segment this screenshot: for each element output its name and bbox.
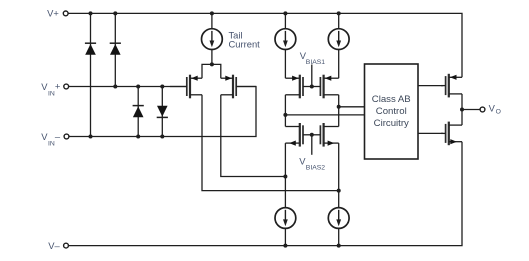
svg-text:V: V	[489, 102, 496, 113]
svg-text:Current: Current	[229, 39, 261, 50]
svg-text:+: +	[55, 80, 61, 91]
svg-text:Control: Control	[376, 106, 407, 117]
svg-text:V–: V–	[48, 240, 60, 251]
svg-text:–: –	[55, 130, 61, 141]
svg-text:BIAS2: BIAS2	[306, 165, 325, 172]
svg-text:Class AB: Class AB	[372, 94, 411, 105]
svg-text:BIAS1: BIAS1	[306, 59, 325, 66]
svg-text:V+: V+	[47, 7, 59, 18]
svg-text:O: O	[496, 108, 501, 115]
svg-text:IN: IN	[48, 141, 55, 148]
svg-text:Circuitry: Circuitry	[374, 118, 409, 129]
svg-text:IN: IN	[48, 91, 55, 98]
